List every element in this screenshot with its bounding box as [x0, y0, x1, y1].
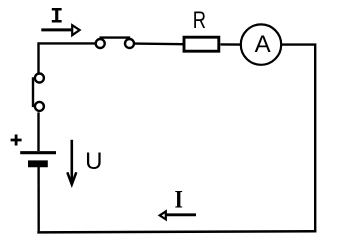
switch S2 blade	[32, 77, 34, 107]
wire from resistor R to ammeter A	[220, 43, 241, 46]
svg-text:R: R	[193, 5, 206, 33]
svg-text:A: A	[255, 31, 271, 58]
resistor R body	[184, 37, 219, 51]
voltage arrow U open head	[67, 172, 76, 184]
wire from S1 to resistor R	[135, 42, 184, 45]
current arrow I top shaft	[41, 28, 71, 31]
switch S2 contact circle upper	[35, 74, 44, 83]
svg-text:I: I	[50, 5, 63, 30]
wire top-left corner run (left wire upper + top wire to switch S1)	[39, 43, 96, 72]
battery positive plate (long)	[20, 151, 56, 154]
switch S1 blade	[100, 36, 131, 38]
wire left lower (battery to bottom-left corner)	[37, 167, 40, 232]
current arrow I top open head	[72, 25, 79, 35]
wire bottom	[37, 231, 316, 232]
current arrow I bottom shaft	[165, 213, 196, 216]
current arrow I bottom open head	[160, 211, 166, 219]
ammeter A body	[241, 24, 281, 64]
switch S2 contact circle lower	[35, 102, 44, 111]
battery plus sign	[11, 135, 22, 146]
switch S1 contact circle left	[96, 39, 105, 48]
battery negative plate (short thick)	[28, 160, 48, 167]
wire ammeter to top-right corner and down right side	[281, 45, 315, 232]
svg-text:I: I	[174, 186, 182, 214]
switch S1 contact circle right	[125, 39, 134, 48]
voltage arrow U shaft	[71, 140, 74, 184]
svg-text:U: U	[85, 148, 102, 175]
wire battery to left switch S2	[37, 112, 39, 151]
